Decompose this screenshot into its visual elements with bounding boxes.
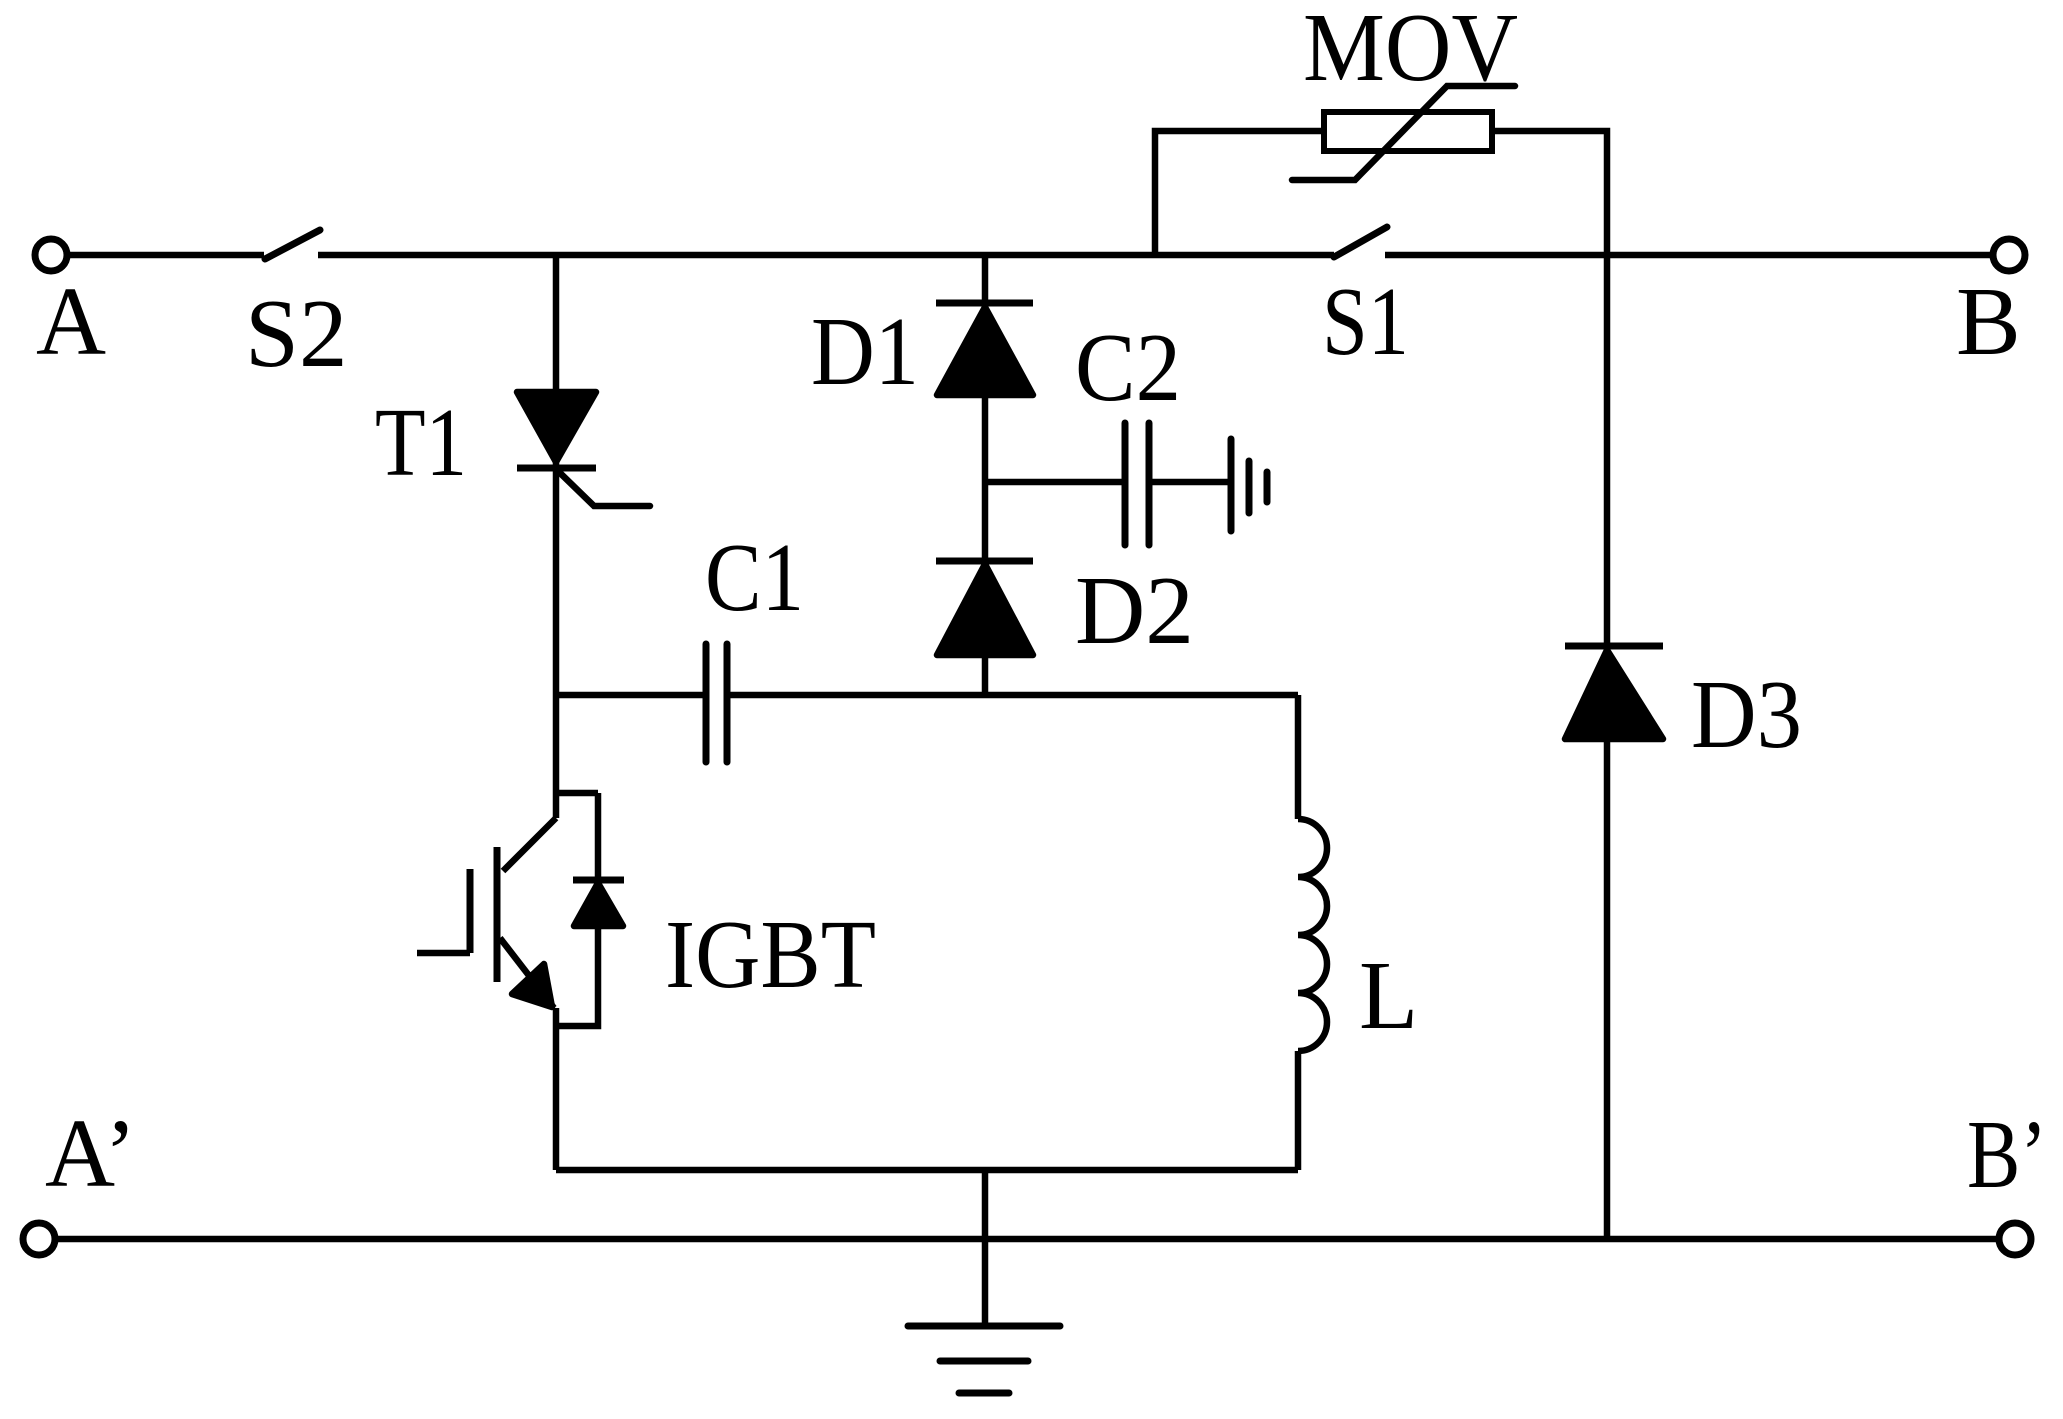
wire ground stem bbox=[982, 1170, 989, 1326]
wire MOV right leg bbox=[1492, 131, 1607, 255]
diode D3 bbox=[1565, 643, 1663, 650]
wire A to S2 bbox=[70, 252, 264, 259]
svg-text:S1: S1 bbox=[1322, 268, 1409, 375]
switch S1 bbox=[1334, 227, 1387, 257]
ground (C2 side) bbox=[1228, 439, 1235, 531]
svg-text:T1: T1 bbox=[375, 389, 467, 496]
svg-text:IGBT: IGBT bbox=[665, 901, 876, 1008]
varistor MOV bbox=[1324, 112, 1492, 151]
wire C1 left bbox=[556, 692, 703, 699]
capacitor C1 bbox=[703, 644, 710, 762]
terminal B' bbox=[1999, 1223, 2031, 1255]
diode D2 bbox=[936, 558, 1033, 565]
terminal A' bbox=[23, 1223, 55, 1255]
terminal B bbox=[1993, 239, 2025, 271]
wire inner bottom bbox=[556, 1167, 1298, 1174]
svg-text:D1: D1 bbox=[811, 298, 919, 405]
wire C2 bbox=[985, 479, 1122, 486]
switch S2 bbox=[265, 230, 320, 259]
wire C1 right to L bbox=[730, 692, 1298, 699]
svg-text:A: A bbox=[36, 268, 106, 375]
terminal A bbox=[35, 239, 67, 271]
svg-text:L: L bbox=[1359, 942, 1418, 1049]
wire C2 to ground bbox=[1152, 479, 1229, 486]
thyristor T1 bbox=[517, 392, 596, 462]
transistor IGBT bbox=[556, 790, 598, 797]
svg-text:B’: B’ bbox=[1967, 1101, 2047, 1208]
svg-text:A’: A’ bbox=[45, 1100, 137, 1207]
wire S2 to S1 bbox=[318, 252, 1334, 259]
svg-text:D2: D2 bbox=[1075, 557, 1194, 664]
wire D1 D2 branch bbox=[982, 255, 989, 695]
wire bottom rail A' to B' bbox=[58, 1236, 1996, 1243]
wire T1 branch bbox=[553, 255, 560, 818]
svg-text:C1: C1 bbox=[705, 524, 804, 631]
svg-text:D3: D3 bbox=[1691, 661, 1802, 768]
wire S1 to B bbox=[1385, 252, 1990, 259]
ground bbox=[908, 1323, 1060, 1330]
svg-text:S2: S2 bbox=[245, 280, 347, 387]
wire D3 branch bbox=[1604, 255, 1611, 1239]
inductor L bbox=[1295, 695, 1302, 819]
wire MOV left leg bbox=[1155, 131, 1324, 255]
svg-text:B: B bbox=[1956, 268, 2021, 375]
diode D1 bbox=[936, 300, 1033, 307]
svg-text:C2: C2 bbox=[1075, 314, 1181, 421]
capacitor C2 bbox=[1122, 423, 1129, 545]
svg-text:MOV: MOV bbox=[1303, 0, 1518, 101]
